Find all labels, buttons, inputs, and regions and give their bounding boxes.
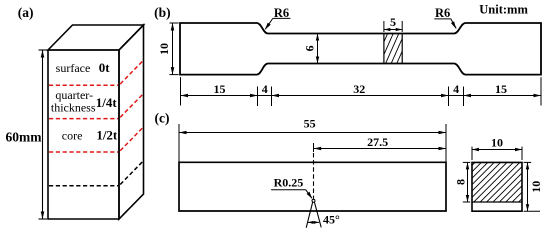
svg-text:1/2t: 1/2t (96, 128, 118, 143)
svg-text:32: 32 (353, 82, 365, 96)
svg-text:8: 8 (453, 179, 467, 185)
svg-text:10: 10 (529, 181, 543, 193)
svg-text:15: 15 (495, 82, 507, 96)
svg-text:thickness: thickness (51, 101, 96, 115)
svg-text:0t: 0t (99, 60, 111, 75)
svg-text:core: core (62, 129, 83, 143)
svg-text:6: 6 (303, 45, 317, 51)
svg-text:R0.25: R0.25 (274, 176, 304, 190)
svg-text:Unit:mm: Unit:mm (479, 3, 528, 17)
svg-text:27.5: 27.5 (367, 135, 388, 149)
svg-text:4: 4 (453, 82, 459, 96)
svg-text:10: 10 (491, 136, 503, 150)
svg-text:45°: 45° (323, 212, 340, 226)
svg-text:1/4t: 1/4t (96, 95, 118, 110)
svg-text:(a): (a) (18, 5, 34, 20)
svg-text:15: 15 (214, 82, 226, 96)
svg-text:(b): (b) (154, 5, 171, 20)
svg-text:(c): (c) (155, 111, 170, 126)
svg-text:60mm: 60mm (6, 130, 43, 145)
svg-text:10: 10 (157, 43, 171, 55)
svg-text:4: 4 (262, 82, 268, 96)
svg-text:55: 55 (304, 117, 316, 131)
svg-text:R6: R6 (435, 6, 450, 20)
svg-text:surface: surface (56, 61, 91, 75)
svg-text:5: 5 (390, 15, 396, 29)
